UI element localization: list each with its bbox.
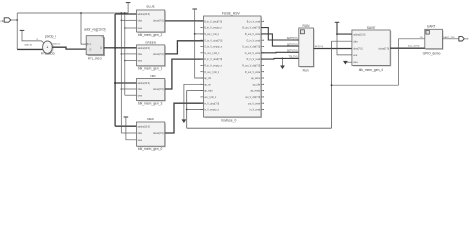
svg-text:UART_TXD: UART_TXD <box>443 36 455 39</box>
bus RED douta to in_V_dout <box>165 103 204 133</box>
svg-text:addra[10:0]: addra[10:0] <box>138 47 150 50</box>
svg-text:GREEN: GREEN <box>145 40 156 44</box>
svg-text:RED: RED <box>147 117 154 121</box>
svg-text:clka: clka <box>138 53 143 56</box>
svg-text:NIR: NIR <box>150 74 156 78</box>
svg-text:clka: clka <box>138 19 143 22</box>
svg-text:out_I_full_n: out_I_full_n <box>204 96 217 99</box>
svg-text:douta[7:0]: douta[7:0] <box>378 47 389 50</box>
svg-text:G_in_V_dout[7:0]: G_in_V_dout[7:0] <box>204 39 222 42</box>
svg-text:Run: Run <box>303 69 309 73</box>
svg-text:dina[7:0]: dina[7:0] <box>353 47 363 50</box>
svg-text:clka: clka <box>138 132 143 135</box>
svg-text:blk_mem_gen_1: blk_mem_gen_1 <box>138 67 163 71</box>
wire clk to GREEN clka <box>121 53 136 55</box>
svg-text:in_V_dout[7:0]: in_V_dout[7:0] <box>204 102 219 105</box>
svg-text:R_out_I_full_n: R_out_I_full_n <box>204 71 220 74</box>
svg-text:addr_reg[10:0]: addr_reg[10:0] <box>84 28 106 32</box>
block RAM BLUE <box>138 11 166 33</box>
svg-text:douta[7:0]: douta[7:0] <box>153 19 164 22</box>
register clock pin triangle <box>86 43 88 46</box>
tie-off SAVE addra constant <box>335 21 340 23</box>
svg-text:ap_ready: ap_ready <box>250 90 261 93</box>
svg-text:B_in_V_dout[7:0]: B_in_V_dout[7:0] <box>204 20 222 23</box>
svg-text:ap_clk: ap_clk <box>204 78 212 80</box>
bus addr to BLUE addra <box>115 13 136 15</box>
svg-text:O[31:0]: O[31:0] <box>52 44 60 46</box>
svg-text:pixOp_i: pixOp_i <box>45 34 56 38</box>
svg-text:G_out_V_write: G_out_V_write <box>245 52 261 55</box>
tie-off ap_clk row constant <box>192 8 197 10</box>
svg-text:RTL_ADD: RTL_ADD <box>41 52 56 56</box>
svg-text:douta[7:0]: douta[7:0] <box>153 88 164 91</box>
bus NIR douta to R_in_V_dout <box>165 59 204 89</box>
wire clk left vertical rail <box>16 13 18 49</box>
svg-text:G_out_V_din[7:0]: G_out_V_din[7:0] <box>242 46 260 49</box>
svg-text:TOL[7:0]: TOL[7:0] <box>288 57 297 59</box>
svg-text:BLUE: BLUE <box>147 5 155 9</box>
svg-text:ap_done: ap_done <box>251 78 261 80</box>
bus BLUE douta to B_in_V_dout <box>165 20 204 22</box>
bus out_V_din to RUN TOL <box>261 57 299 60</box>
wire wea to BLUE wea <box>125 27 137 29</box>
wire stub in_V_empty_n <box>187 109 204 111</box>
UART ip icon <box>426 30 429 34</box>
wire clk horizontal to UART <box>332 84 399 86</box>
svg-text:SETH[7:0]: SETH[7:0] <box>287 38 298 40</box>
wire tie-off stub to SAVE ena <box>337 34 352 55</box>
svg-text:R_out_V_din[7:0]: R_out_V_din[7:0] <box>242 65 260 68</box>
block RAM NIR <box>138 80 166 102</box>
svg-text:I0[31:0]: I0[31:0] <box>24 45 32 47</box>
svg-text:addra[10:0]: addra[10:0] <box>138 13 150 16</box>
svg-text:ap_rst: ap_rst <box>204 83 211 86</box>
svg-text:RTL_REG: RTL_REG <box>88 57 103 61</box>
svg-text:B_in_V_read: B_in_V_read <box>247 20 261 23</box>
register addr_reg[10:0] RTL_REG <box>88 37 105 56</box>
adder U-add pixOp_i RTL_ADD <box>43 42 53 54</box>
bus addr to GREEN addra <box>115 47 136 49</box>
wire const_1 to adder I1 <box>22 30 44 43</box>
wire clk port to rail <box>11 19 17 21</box>
wire clk to RED clka <box>121 132 136 134</box>
wire return loop bottom <box>187 127 332 129</box>
bus addr to NIR addra <box>115 82 136 84</box>
svg-text:RUN: RUN <box>303 24 311 28</box>
wire ap_rst to tie-off below <box>184 84 204 119</box>
bus GREEN douta to G_in_V_dout <box>165 41 204 54</box>
svg-text:in_V_read: in_V_read <box>250 109 261 112</box>
block UART GPIO_demo <box>426 30 444 50</box>
wire ap_start loop down <box>187 91 204 129</box>
svg-text:blk_mem_gen_4: blk_mem_gen_4 <box>359 68 384 72</box>
bus RUN SET to SAVE dina <box>314 48 352 50</box>
svg-text:douta[7:0]: douta[7:0] <box>153 53 164 56</box>
wire UART_TXD to output port <box>442 38 459 40</box>
svg-text:G_out_I_full_n: G_out_I_full_n <box>204 52 220 55</box>
svg-text:G_in_V_read: G_in_V_read <box>246 39 260 42</box>
bus R_out_V_din to RUN SETV <box>261 51 299 54</box>
svg-text:clka: clka <box>353 40 358 43</box>
bus G_out_V_din to RUN SETS <box>261 34 299 46</box>
svg-text:txd: txd <box>465 37 469 41</box>
svg-text:ap_start: ap_start <box>204 90 213 93</box>
output port txd <box>459 37 464 41</box>
block RAM RED <box>138 123 166 147</box>
svg-text:in_V_empty_n: in_V_empty_n <box>204 109 220 112</box>
block RAM GREEN <box>138 46 166 67</box>
wire wea vertical rail <box>124 13 126 95</box>
svg-text:addra[10:0]: addra[10:0] <box>138 125 150 128</box>
tie-off constant RED wea <box>124 116 129 118</box>
svg-text:R_in_V_read: R_in_V_read <box>247 58 261 61</box>
svg-text:B_out_V_write: B_out_V_write <box>245 33 261 36</box>
block FUSE_HSV hsvfuse_0 <box>205 17 263 118</box>
svg-text:R_in_V_empty_n: R_in_V_empty_n <box>204 65 223 68</box>
tie-off constant top of clk rail <box>126 2 131 4</box>
svg-text:addra[15:0]: addra[15:0] <box>353 33 365 36</box>
bus B_out_V_din to RUN SETH <box>261 28 299 40</box>
svg-text:B_in_V_empty_n: B_in_V_empty_n <box>204 27 222 30</box>
bus addr feedback to adder I0 <box>17 48 45 50</box>
bus addr to RED addra <box>115 125 136 127</box>
wire wea to GREEN wea <box>125 60 137 62</box>
bus adder O to register D <box>52 47 86 49</box>
wire clk vertical rail <box>120 13 122 133</box>
svg-text:hsvfuse_0: hsvfuse_0 <box>221 118 236 122</box>
svg-text:SAVE: SAVE <box>367 26 376 30</box>
wire tie-off stub <box>127 3 129 13</box>
svg-text:SETV[7:0]: SETV[7:0] <box>287 51 298 53</box>
constant const_1 tie-off <box>20 29 25 31</box>
wire clk to BLUE clka <box>121 19 136 21</box>
wire wea to NIR wea <box>125 94 137 96</box>
bus tie-off to SAVE addra <box>337 22 352 34</box>
svg-text:R_in_V_dout[7:0]: R_in_V_dout[7:0] <box>204 58 222 61</box>
svg-text:wea: wea <box>138 139 143 142</box>
svg-text:SET[7:0]: SET[7:0] <box>315 46 324 48</box>
bus addr vertical rail <box>114 14 116 126</box>
wire clk drop to register C <box>81 13 86 44</box>
wire tie-off to RED wea <box>126 117 137 140</box>
tie-off marker ap_rst <box>182 119 187 123</box>
svg-text:Q: Q <box>100 48 102 50</box>
svg-text:SETS[7:0]: SETS[7:0] <box>287 44 298 46</box>
svg-text:wea: wea <box>138 94 143 97</box>
svg-text:B_out_V_din[7:0]: B_out_V_din[7:0] <box>242 27 260 30</box>
svg-text:wea: wea <box>138 60 143 63</box>
svg-text:blk_mem_gen_3: blk_mem_gen_3 <box>138 101 163 105</box>
svg-text:out_V_write: out_V_write <box>248 102 261 105</box>
svg-text:addra[10:0]: addra[10:0] <box>138 82 150 85</box>
block RAM SAVE blk_mem_gen_4 <box>353 31 391 66</box>
svg-text:UART: UART <box>427 25 436 29</box>
wire constant to FUSE_HSV ap_clk row <box>195 9 204 78</box>
wire clk top rail <box>17 12 128 14</box>
svg-text:blk_mem_gen_0: blk_mem_gen_0 <box>138 147 163 151</box>
wire constant stub to B_out_I_full_n <box>195 33 204 35</box>
svg-text:ena: ena <box>353 54 358 57</box>
svg-text:wea: wea <box>353 61 358 64</box>
ground symbol at SAVE wea <box>347 61 352 63</box>
svg-text:ap_idle: ap_idle <box>253 84 261 86</box>
svg-text:FUSE_HSV: FUSE_HSV <box>222 12 241 16</box>
svg-text:blk_mem_gen_2: blk_mem_gen_2 <box>138 33 163 37</box>
svg-text:data_in[7:0]: data_in[7:0] <box>408 44 420 47</box>
wire return loop up to SAVE clka <box>331 41 333 128</box>
svg-text:B_out_I_full_n: B_out_I_full_n <box>204 33 220 36</box>
svg-text:R_out_V_write: R_out_V_write <box>245 71 261 74</box>
svg-text:wea: wea <box>138 27 143 30</box>
wire clk to NIR clka <box>121 88 136 90</box>
wire clk trunk to SAVE clka <box>332 40 352 42</box>
svg-text:GPIO_demo: GPIO_demo <box>423 51 441 55</box>
svg-text:G_in_V_empty_n: G_in_V_empty_n <box>204 46 223 49</box>
bus register Q to addr rail <box>104 47 116 49</box>
svg-text:clka: clka <box>138 88 143 91</box>
svg-text:out_V_din[7:0]: out_V_din[7:0] <box>245 96 260 99</box>
block RUN <box>300 29 315 68</box>
ground symbol below RUN <box>282 58 284 65</box>
bus SAVE douta to UART data_in <box>390 47 425 49</box>
RUN ip icon <box>300 30 304 34</box>
svg-text:douta[7:0]: douta[7:0] <box>153 132 164 135</box>
